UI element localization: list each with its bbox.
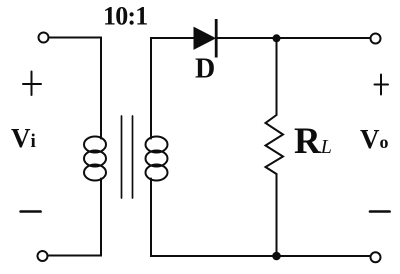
transformer primary winding [84, 137, 106, 181]
svg-text:Vo: Vo [360, 124, 389, 154]
terminal (output bottom) [371, 252, 381, 262]
wire (input top to primary) [49, 38, 102, 139]
transformer secondary winding [146, 137, 168, 181]
plus sign (output polarity) [375, 75, 389, 95]
terminal (input top) [39, 33, 49, 43]
wire (input bottom to primary) [48, 179, 102, 256]
wire (secondary bottom along bottom rail) [151, 179, 370, 257]
terminal (output top) [371, 34, 381, 44]
wire (resistor branch) [276, 42, 278, 252]
terminal (input bottom) [38, 251, 48, 261]
junction node (resistor bottom rail) [272, 252, 281, 261]
svg-text:RL: RL [294, 121, 332, 162]
junction node (diode-resistor top) [273, 34, 281, 42]
minus sign (output polarity) [370, 210, 390, 213]
minus sign (input polarity) [21, 210, 41, 213]
wire (secondary top to diode) [151, 38, 194, 139]
svg-text:D: D [195, 54, 215, 85]
wire (diode cathode to output top) [218, 37, 371, 39]
diode D cathode bar [215, 19, 218, 58]
transformer core [122, 116, 133, 198]
plus sign (input polarity) [23, 72, 41, 96]
svg-text:10:1: 10:1 [103, 2, 147, 31]
diode D triangle [194, 28, 215, 50]
svg-text:Vi: Vi [11, 123, 36, 153]
resistor RL zigzag [266, 115, 284, 174]
